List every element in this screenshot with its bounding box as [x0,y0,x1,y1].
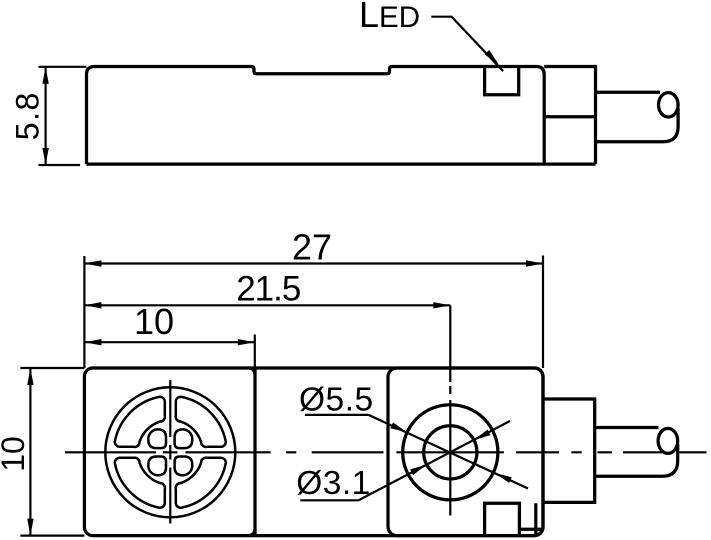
svg-text:Ø3.1: Ø3.1 [296,465,371,502]
svg-text:10: 10 [134,301,174,342]
svg-text:LED: LED [359,0,420,35]
svg-text:27: 27 [292,227,332,268]
svg-text:21.5: 21.5 [236,270,300,309]
svg-text:10: 10 [0,436,31,472]
svg-text:5.8: 5.8 [9,91,45,140]
svg-text:Ø5.5: Ø5.5 [299,381,374,418]
